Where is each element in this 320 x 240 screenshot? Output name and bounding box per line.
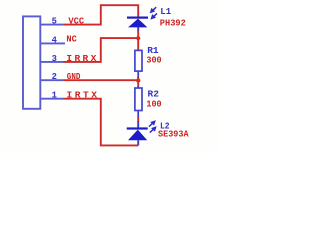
svg-text:GND: GND [67, 71, 81, 82]
svg-text:L1: L1 [160, 6, 171, 17]
wire GND net [64, 79, 139, 81]
node junction J2 (GND tap) [136, 78, 140, 82]
led L2 arrow 1 [149, 121, 155, 127]
wire between R2 and L2 [137, 117, 139, 122]
led L2 arrow 2 [150, 127, 156, 133]
svg-text:100: 100 [146, 99, 161, 110]
resistor R1 body [135, 50, 142, 71]
wire VCC net [64, 5, 139, 24]
diode L1 triangle [128, 19, 147, 28]
photodiode L1 arrow 2 [151, 13, 157, 18]
diode L1 lead top (blue below triangle) [137, 27, 139, 30]
wire IRTX net [64, 99, 139, 146]
resistor R1 leads [137, 71, 139, 78]
wire rail above R1 (cathode of L1 to junction to R1) [137, 30, 139, 51]
node junction J1 (IRRX tap) [136, 36, 140, 40]
pin 2 [41, 79, 64, 81]
diode L2 cathode bar [127, 127, 148, 129]
photodiode L1 arrow 1 [150, 7, 156, 12]
svg-text:VCC: VCC [68, 16, 84, 27]
diode L2 lead bottom [137, 140, 139, 145]
resistor R2 lead top [137, 86, 139, 89]
pin 4 [41, 42, 66, 44]
wire R1 bottom to GND junction [137, 77, 139, 87]
svg-text:5: 5 [52, 17, 57, 27]
pin 5 [41, 24, 64, 26]
diode L2 triangle [128, 130, 147, 141]
connector J1 body [23, 16, 40, 108]
resistor R2 body [135, 88, 142, 111]
svg-text:4: 4 [52, 35, 58, 45]
pin 1 [41, 98, 64, 100]
svg-text:SE393A: SE393A [158, 129, 189, 140]
svg-text:NC: NC [66, 34, 77, 45]
svg-text:1: 1 [52, 91, 57, 101]
wire IRRX net [64, 38, 139, 62]
svg-text:2: 2 [52, 72, 57, 82]
resistor R2 lead bottom [137, 110, 139, 117]
pin 3 [41, 61, 64, 63]
diode L2 lead top (blue from red segment to bar) [137, 121, 139, 128]
diode L1 cathode bar [127, 17, 148, 19]
svg-text:3: 3 [52, 54, 57, 64]
svg-text:PH392: PH392 [160, 18, 186, 29]
svg-text:300: 300 [146, 55, 161, 66]
